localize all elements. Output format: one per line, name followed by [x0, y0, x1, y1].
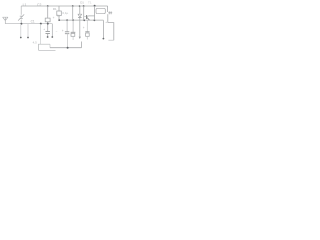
svg-text:D1: D1 [80, 1, 84, 5]
wire riser x81.5 from bus [81, 42, 83, 48]
svg-text:+: + [83, 26, 85, 30]
node dot mid x84.2 [83, 19, 85, 21]
wire mid rail y20.2 [59, 19, 103, 21]
transistor T1 collector [87, 15, 95, 17]
capacitor C6 electrolytic [86, 20, 88, 32]
wire riser x94.6 rail to mid [94, 6, 96, 20]
node dot bus x67.9 [67, 47, 69, 49]
antenna ANT1 [3, 17, 8, 24]
transistor T1 base bar [86, 15, 88, 19]
wire battery top corner [108, 23, 114, 41]
wire top rail y6 [21, 5, 107, 7]
node dot mid x59.2 [58, 19, 60, 21]
node dot coil bottom [20, 37, 22, 39]
node dot x52.3 bottom [51, 36, 53, 38]
capacitor C1 variable, plates [20, 16, 23, 18]
wire x103.4 down from mid wire [102, 20, 104, 39]
earphone box [96, 8, 105, 13]
wire x40.5 down to battery box [40, 24, 42, 44]
svg-text:+: + [105, 20, 107, 24]
wire battery riser x107.8 [107, 14, 109, 22]
node dot rail x83.6 [83, 5, 85, 7]
resistor R2 box [45, 18, 50, 22]
earphone terminal marks [108, 11, 112, 14]
node dot rail x79.5 diode top [79, 5, 81, 7]
svg-text:1k: 1k [57, 14, 61, 18]
wire corner x107.6 from rail down [107, 6, 109, 12]
svg-text:~: ~ [56, 29, 58, 33]
wire riser x72.7 rail to mid [72, 6, 74, 20]
resistor R1 box [57, 11, 62, 16]
node dot x103.4 [103, 38, 105, 40]
node dot mid x67.1 [66, 19, 68, 21]
wire antenna node y23.7 [5, 23, 52, 25]
wire riser x47.7 [47, 6, 49, 31]
node dot antenna-C1 junction [20, 23, 22, 25]
wire R1 bottom stub [58, 16, 60, 21]
node dot rail x94.6 [94, 5, 96, 7]
svg-text:+: + [62, 29, 64, 33]
svg-text:R1: R1 [53, 7, 57, 11]
wire C3 tail [47, 33, 49, 37]
arrowhead bottom of D1 branch [79, 37, 81, 39]
wire bottom bus y47.7 [50, 47, 82, 49]
node dot x47.7 on antenna wire [47, 23, 49, 25]
wire corner x52.3 down from antenna wire [51, 24, 53, 38]
svg-text:T1: T1 [88, 1, 92, 5]
node dot rail x72.7 [72, 5, 74, 7]
transistor T1 emitter [87, 17, 90, 20]
node dot mid x94.4 [94, 19, 96, 21]
svg-text:+: + [53, 16, 55, 20]
diode D1 [79, 6, 81, 14]
node dot rail x47.7 [47, 5, 49, 7]
svg-text:0,1µ: 0,1µ [62, 11, 68, 15]
node dot branch bottom [27, 37, 29, 39]
battery box B1 [39, 44, 56, 50]
wire left riser x21 rail to antenna wire [20, 6, 22, 15]
capacitor C4 electrolytic [66, 20, 68, 32]
wire R1 stub from rail [58, 6, 60, 11]
capacitor C5 electrolytic boxed minus plate [72, 20, 74, 32]
wire coil branch x20.8 down [20, 24, 22, 37]
svg-text:C2: C2 [37, 3, 41, 7]
wire riser x83.7 rail to mid wire [83, 6, 85, 20]
wire cap branch x28 down [27, 24, 29, 37]
svg-text:C1: C1 [31, 20, 35, 24]
wire battery bottom corner [108, 39, 113, 41]
capacitor C3 plates [46, 31, 50, 33]
node dot wire-junction x40.8 [40, 23, 42, 25]
svg-text:L1: L1 [23, 3, 27, 7]
node dot C3 bottom [47, 36, 49, 38]
svg-text:+: + [43, 27, 45, 31]
svg-text:~: ~ [96, 12, 98, 16]
svg-text:4,5: 4,5 [33, 40, 38, 44]
capacitor C1 arrow [18, 14, 24, 20]
transistor T1 base lead [84, 16, 86, 18]
node dot mid x73.1 [72, 19, 74, 21]
